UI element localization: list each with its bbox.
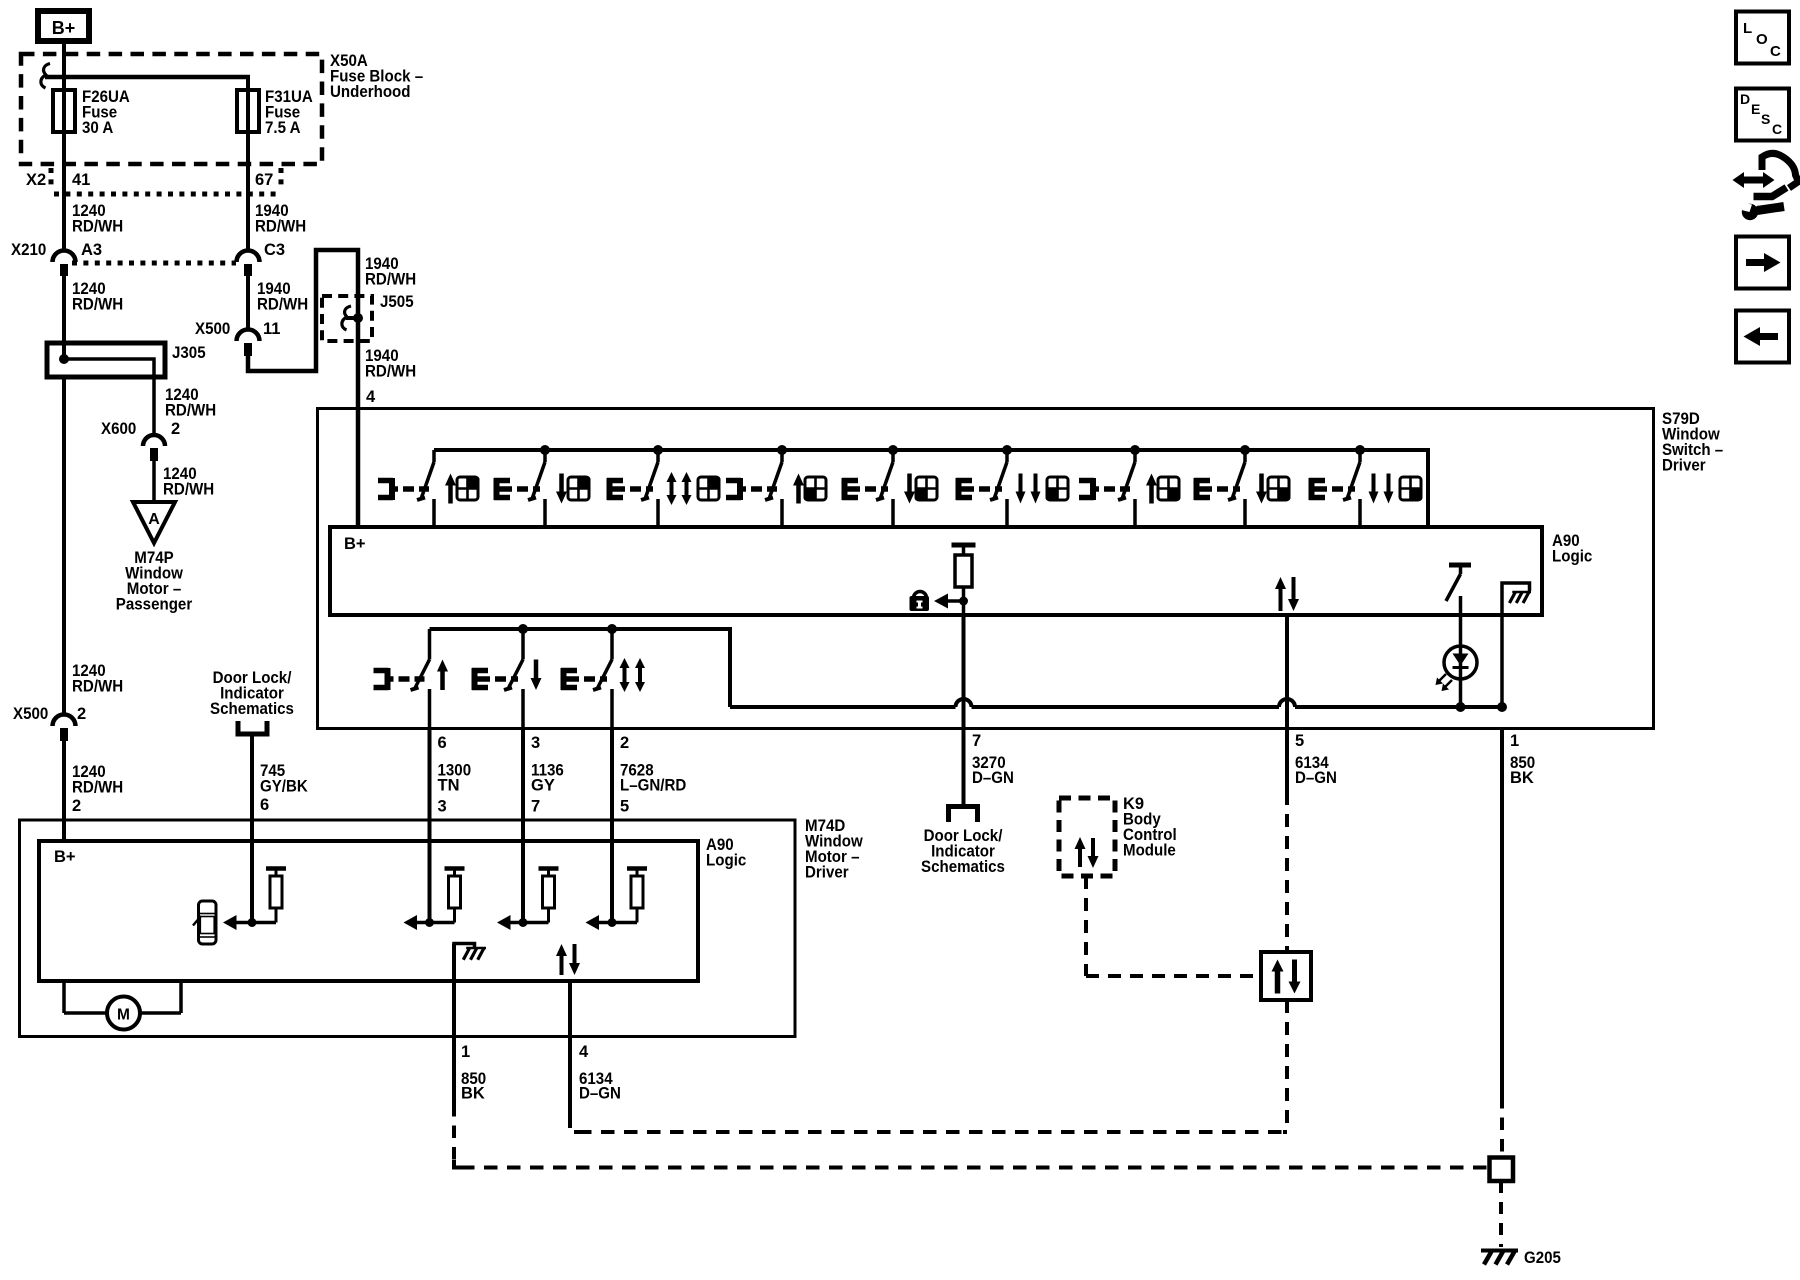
svg-text:BK: BK: [461, 1085, 485, 1103]
svg-text:Underhood: Underhood: [330, 83, 411, 101]
label 1240 RD/WH (above X500-2): [72, 662, 123, 696]
svg-text:O: O: [1756, 31, 1768, 48]
label Door Lock/Indicator Schematics (745): [210, 669, 294, 718]
switch SW4 (up window BL): [726, 450, 826, 529]
svg-text:C: C: [1770, 43, 1781, 60]
wire bus to fuse F31UA: [246, 77, 250, 194]
connector X500 pin 2 labels: [13, 705, 86, 723]
svg-text:RD/WH: RD/WH: [163, 481, 214, 499]
switch SW8 (down window BR): [1194, 450, 1291, 529]
window motor M74P symbol (triangle A): [133, 502, 175, 543]
switch SW2 (down window TR): [494, 450, 591, 529]
svg-text:S: S: [1761, 111, 1770, 127]
driver switch input resistor + arrow (pin 2): [586, 869, 648, 931]
svg-text:2: 2: [72, 797, 81, 815]
splice J505 hook and junction: [342, 306, 363, 330]
label 745 GY/BK 6: [260, 762, 308, 814]
splice pack J305 box: [47, 343, 165, 377]
junction dot bus row1 sw5: [888, 445, 898, 455]
svg-text:BK: BK: [1510, 769, 1534, 787]
wire B+ bus row1 with corner to A90: [434, 450, 1428, 527]
label pin 7 wire 3270 D-GN: [972, 732, 1014, 787]
ground G205 symbol: [1481, 1251, 1518, 1265]
battery feed B+ terminal: [38, 11, 89, 41]
dashed link 6134 D-GN to BCM link box: [570, 1117, 1283, 1132]
window switch S79D outer box: [318, 409, 1654, 729]
wire B+ down into fuse block: [62, 41, 66, 92]
ref dongle door lock (745 circuit): [236, 721, 270, 737]
ground bus inside S79D: [730, 699, 1507, 712]
window lockout indicator (lock icon + arrow): [910, 592, 949, 612]
label pin 1 wire 850 BK: [1510, 732, 1535, 787]
svg-text:A: A: [148, 511, 160, 528]
fuse F26UA: [53, 90, 75, 132]
connector X210 pin C3: [237, 251, 260, 276]
svg-text:2: 2: [77, 705, 86, 723]
label S79D Window Switch - Driver: [1662, 410, 1723, 475]
svg-text:2: 2: [171, 420, 180, 438]
logic module A90 box (S79D): [330, 527, 1542, 615]
wire S79D pin 2 wire 7628 L-GN/RD to M74D: [610, 729, 614, 922]
svg-text:7: 7: [972, 732, 981, 750]
wire fuse block to X2-41: [62, 92, 66, 194]
svg-text:4: 4: [366, 388, 376, 406]
connector X2 labels: [26, 171, 273, 189]
nav box LOC: [1736, 12, 1789, 64]
dashed link 850 BK to G205: [454, 1104, 1489, 1168]
connector X500 pin 2: [53, 715, 76, 742]
connector X210 labels: [11, 241, 285, 259]
wire S79D pin 6 wire 1300 TN to M74D: [428, 729, 432, 922]
up/down logic arrows at pin 5 (A90 S79D): [1275, 577, 1299, 611]
bus row2 (driver window switches): [430, 629, 731, 707]
switch SW6 (downdown2 window BL): [956, 450, 1068, 529]
svg-text:7: 7: [531, 798, 540, 816]
svg-text:1: 1: [1510, 732, 1519, 750]
ground terminal square G205: [1490, 1158, 1514, 1182]
svg-text:3: 3: [531, 734, 540, 752]
wire 745 GY/BK into M74D: [250, 737, 254, 923]
window motor up/down link box (BCM): [1261, 952, 1311, 1000]
svg-text:30 A: 30 A: [82, 119, 113, 137]
svg-text:TN: TN: [438, 777, 460, 795]
label M74D Window Motor - Driver: [805, 817, 863, 882]
nav quick-find icon: [1733, 153, 1799, 220]
switch SW9 (downdown2 window BR): [1309, 450, 1423, 529]
wire M74D pin 4 (6134 D-GN): [568, 981, 572, 1117]
logic module A90 box (M74D): [39, 841, 698, 981]
internal ground (M74D): [454, 944, 486, 982]
wire S79D pin 5 solid segment: [1285, 615, 1289, 792]
label pin 6 wire 1300 TN: [438, 734, 472, 816]
dashed wire 6134 to BCM link: [1285, 792, 1289, 952]
connector X500 pin 11 labels: [195, 320, 280, 338]
switch SW10 (driver window up): [374, 629, 449, 729]
wire S79D pin 1 internal: [1500, 615, 1504, 707]
svg-text:D–GN: D–GN: [579, 1085, 621, 1103]
junction dot in J305: [59, 354, 69, 364]
label X50A Fuse Block - Underhood: [330, 52, 423, 101]
svg-text:5: 5: [620, 798, 629, 816]
svg-text:X500: X500: [13, 705, 48, 723]
wire LED to ground bus: [1459, 678, 1463, 707]
label pin 2 wire 7628 L-GN/RD: [620, 734, 686, 816]
junction dot bus row1 sw4: [777, 445, 787, 455]
svg-text:RD/WH: RD/WH: [72, 218, 123, 236]
nav box arrow right: [1736, 237, 1789, 289]
svg-text:X210: X210: [11, 241, 46, 259]
fuse block X50A dashed box: [21, 54, 322, 164]
indicator drive arrow to car: [223, 915, 276, 930]
label 1940 RD/WH (above J505): [365, 255, 416, 289]
label A90 Logic (M74D): [706, 836, 746, 870]
junction dot bus row1 sw6: [1002, 445, 1012, 455]
connector X210 pin A3: [53, 251, 76, 276]
svg-text:2: 2: [620, 734, 629, 752]
label pin 3 wire 1136 GY: [531, 734, 564, 816]
svg-text:Schematics: Schematics: [210, 700, 294, 718]
label circuit 1240 RD/WH (X2-41): [72, 202, 123, 236]
junction dot bus row1 sw7: [1130, 445, 1140, 455]
wire S79D pin 3 wire 1136 GY to M74D: [521, 729, 525, 922]
svg-text:7.5 A: 7.5 A: [265, 119, 301, 137]
svg-text:Driver: Driver: [805, 864, 849, 882]
switch SW3 (updown2 window TR): [607, 450, 721, 529]
switch SW1 (up window TR): [378, 450, 480, 529]
wire J305 branch to X600: [64, 359, 154, 436]
svg-text:C: C: [1772, 121, 1782, 137]
svg-text:RD/WH: RD/WH: [72, 678, 123, 696]
dashed wire 6134 below link box: [1283, 1000, 1287, 1132]
wire 1940 down to X500-11: [246, 276, 250, 330]
svg-text:11: 11: [263, 320, 280, 338]
wire 1940 to X210-C3: [246, 194, 250, 251]
label K9 Body Control Module: [1123, 795, 1177, 860]
svg-text:D–GN: D–GN: [972, 769, 1014, 787]
svg-text:E: E: [1751, 101, 1760, 117]
wire 1240 X600 to M74P: [152, 461, 156, 503]
label M74D pin 1 850 BK: [461, 1043, 486, 1103]
ref dongle door lock (pin 7): [946, 807, 980, 823]
junction dot bus row2 sw12: [607, 624, 617, 634]
connector X600 labels: [101, 420, 180, 438]
svg-text:Schematics: Schematics: [921, 858, 1005, 876]
svg-text:B+: B+: [52, 18, 76, 38]
label 1240 RD/WH (below A3): [72, 280, 123, 314]
label 1940 RD/WH (below J505): [365, 347, 416, 381]
label pin 5 wire 6134 D-GN: [1295, 732, 1337, 787]
junction dot bus row1 sw8: [1240, 445, 1250, 455]
svg-text:Logic: Logic: [1552, 548, 1592, 566]
svg-text:B+: B+: [344, 535, 366, 553]
dashed wire to G205: [1499, 1181, 1503, 1247]
svg-text:Passenger: Passenger: [116, 596, 193, 614]
connector X210 dotted face: [72, 261, 236, 266]
svg-text:RD/WH: RD/WH: [365, 363, 416, 381]
svg-text:RD/WH: RD/WH: [255, 218, 306, 236]
svg-text:5: 5: [1295, 732, 1304, 750]
svg-text:L: L: [1743, 20, 1752, 37]
label 1240 RD/WH (J305 branch): [165, 386, 216, 420]
splice in fuse block X50A: [41, 64, 250, 89]
car body icon (door lock indicator): [193, 901, 216, 944]
label circuit 1940 RD/WH (X2-67): [255, 202, 306, 236]
LED backlight: [1436, 646, 1478, 691]
svg-text:M: M: [117, 1007, 130, 1024]
svg-text:X500: X500: [195, 320, 230, 338]
up/down arrows in K9: [1075, 837, 1099, 868]
internal ground return (A90 S79D): [1502, 583, 1531, 615]
junction dot bus row2 sw11: [518, 624, 528, 634]
svg-text:G205: G205: [1524, 1249, 1561, 1267]
svg-text:RD/WH: RD/WH: [365, 271, 416, 289]
svg-text:GY/BK: GY/BK: [260, 778, 308, 796]
nav box DESC: [1736, 89, 1789, 141]
svg-text:RD/WH: RD/WH: [257, 296, 308, 314]
label 1240 RD/WH (to M74P): [163, 465, 214, 499]
body control module K9 dashed box: [1059, 798, 1115, 876]
label 1240 RD/WH 2 (to M74D): [72, 763, 123, 815]
wire 1240 below J305 to X500-2: [62, 377, 66, 715]
svg-text:X2: X2: [26, 171, 46, 189]
svg-text:J305: J305: [172, 344, 206, 362]
dashed link K9 to window motor logic box: [1086, 876, 1261, 976]
junction dot bus row1 sw2: [540, 445, 550, 455]
wire 1240 to X210-A3: [62, 194, 66, 251]
svg-text:RD/WH: RD/WH: [165, 402, 216, 420]
svg-text:6: 6: [260, 796, 269, 814]
wire 1240 down to J305: [62, 276, 66, 359]
svg-text:A3: A3: [81, 241, 102, 259]
svg-text:6: 6: [438, 734, 447, 752]
wire 1940 RD/WH routing to J505: [248, 250, 358, 527]
fuse F31UA: [237, 90, 259, 132]
switch SW7 (up window BR): [1079, 450, 1181, 529]
svg-text:67: 67: [255, 171, 273, 189]
splice J505 dashed box: [322, 296, 372, 341]
wire 1240 to M74D B+: [62, 741, 66, 841]
label M74P Window Motor - Passenger: [116, 549, 193, 614]
switch SW5 (down window BL): [842, 450, 937, 529]
window lockout PTC resistor: [948, 545, 976, 615]
svg-text:J505: J505: [380, 293, 414, 311]
dashed wire 850 BK to ground terminal: [1500, 1096, 1504, 1157]
svg-text:41: 41: [72, 171, 90, 189]
switch SW12 (driver window updown2): [561, 629, 645, 729]
svg-text:D–GN: D–GN: [1295, 769, 1337, 787]
label M74D pin 4 6134 D-GN: [579, 1043, 621, 1103]
nav box arrow left: [1736, 311, 1789, 363]
wire M74D pin 1 (850 BK): [452, 944, 456, 1105]
driver switch input resistor + arrow (pin 3): [497, 869, 559, 931]
wire S79D pin 7 (lockout to door lock ref): [962, 615, 966, 806]
indicator resistor (car): [266, 869, 286, 923]
connector X2 dotted face: [51, 168, 281, 194]
wire 850 BK pin1 down: [1500, 729, 1504, 1096]
motor M (M74D): [64, 981, 181, 1030]
svg-text:GY: GY: [531, 777, 555, 795]
svg-text:B+: B+: [54, 848, 76, 866]
label 1940 RD/WH (below C3): [257, 280, 308, 314]
up/down arrows (M74D pin 4): [556, 944, 580, 975]
svg-text:1: 1: [461, 1043, 470, 1061]
junction dot bus row1 sw3: [653, 445, 663, 455]
svg-text:X600: X600: [101, 420, 136, 438]
label F26UA Fuse 30 A: [82, 88, 130, 137]
svg-text:Module: Module: [1123, 842, 1176, 860]
svg-text:C3: C3: [264, 241, 285, 259]
label F31UA Fuse 7.5 A: [265, 88, 313, 137]
driver switch input resistor + arrow (pin 6): [404, 869, 465, 931]
window motor M74D outer box: [20, 820, 796, 1037]
svg-text:D: D: [1740, 91, 1750, 107]
svg-text:Logic: Logic: [706, 852, 746, 870]
label Door Lock/Indicator Schematics (pin 7): [921, 827, 1005, 876]
connector X500 pin 11: [237, 330, 260, 357]
svg-text:Driver: Driver: [1662, 457, 1706, 475]
wire switch to LED: [1459, 615, 1463, 647]
svg-text:3: 3: [438, 798, 447, 816]
label A90 Logic (S79D): [1552, 532, 1592, 566]
backlight switch symbol (A90 S79D): [1446, 565, 1471, 615]
svg-text:4: 4: [579, 1043, 589, 1061]
svg-text:RD/WH: RD/WH: [72, 779, 123, 797]
connector X600 pin 2: [143, 435, 165, 461]
junction dot bus row1 sw9: [1355, 445, 1365, 455]
switch SW11 (driver window down): [472, 629, 542, 729]
svg-text:RD/WH: RD/WH: [72, 296, 123, 314]
svg-text:L–GN/RD: L–GN/RD: [620, 777, 686, 795]
